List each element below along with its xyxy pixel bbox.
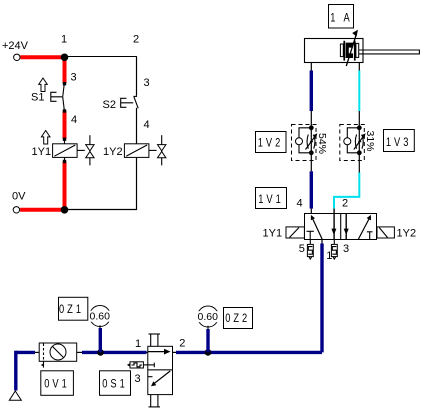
svg-text:2: 2	[133, 34, 139, 46]
svg-text:0S1: 0S1	[102, 377, 128, 391]
svg-text:3: 3	[135, 373, 141, 385]
svg-text:1V3: 1V3	[386, 136, 412, 150]
svg-text:31%: 31%	[364, 130, 376, 151]
svg-text:2: 2	[342, 197, 348, 209]
svg-text:0V: 0V	[12, 191, 26, 203]
svg-text:4: 4	[71, 114, 77, 126]
svg-text:1: 1	[135, 338, 141, 350]
svg-text:4: 4	[144, 119, 150, 131]
svg-text:1Y2: 1Y2	[103, 146, 123, 158]
svg-text:1Y1: 1Y1	[263, 227, 283, 239]
svg-text:2: 2	[179, 337, 185, 349]
svg-text:0V1: 0V1	[44, 377, 70, 391]
svg-text:1V1: 1V1	[258, 193, 284, 207]
svg-text:S1: S1	[31, 92, 44, 104]
svg-text:3: 3	[144, 77, 150, 89]
svg-text:4: 4	[297, 197, 303, 209]
svg-text:0Z1: 0Z1	[59, 303, 84, 317]
svg-text:1V2: 1V2	[258, 137, 284, 151]
svg-text:3: 3	[71, 71, 77, 83]
svg-text:0.60: 0.60	[90, 311, 111, 323]
svg-text:54%: 54%	[316, 133, 328, 154]
svg-text:1Y2: 1Y2	[397, 227, 417, 239]
svg-text:0.60: 0.60	[198, 311, 219, 323]
svg-text:+24V: +24V	[2, 40, 29, 52]
svg-text:1 A: 1 A	[330, 11, 352, 25]
svg-text:1: 1	[326, 250, 332, 262]
svg-text:S2: S2	[103, 99, 116, 111]
svg-text:0Z2: 0Z2	[225, 312, 250, 326]
svg-text:3: 3	[343, 243, 349, 255]
svg-text:5: 5	[299, 243, 305, 255]
svg-text:1Y1: 1Y1	[32, 146, 52, 158]
svg-text:1: 1	[61, 34, 67, 46]
